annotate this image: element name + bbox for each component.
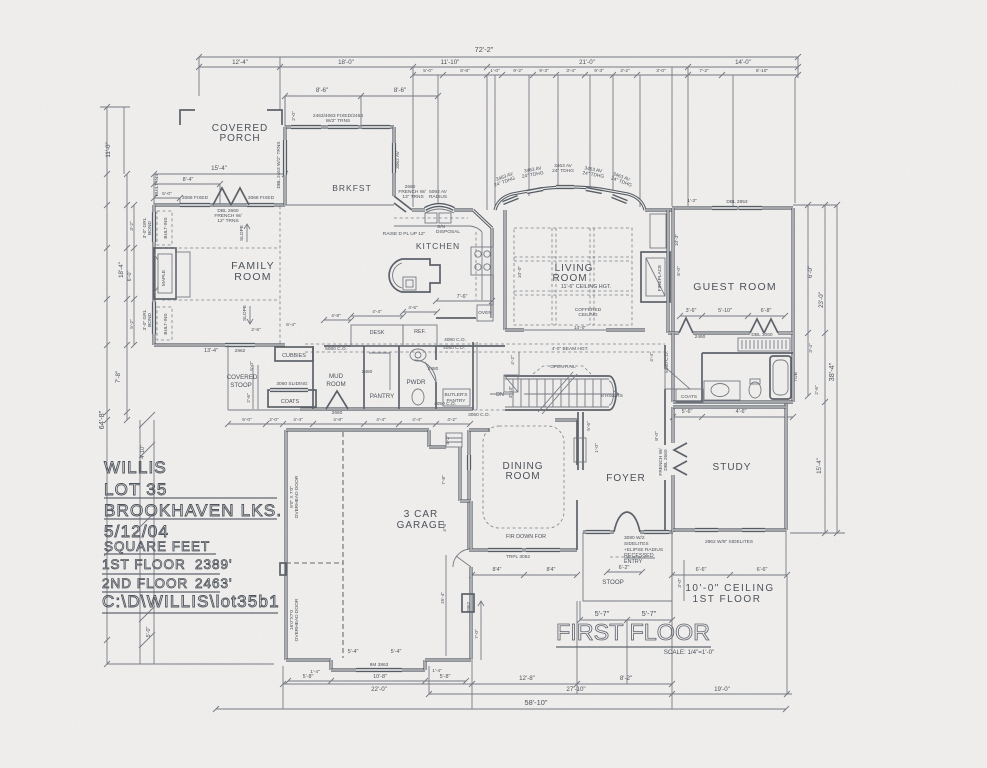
brkfst east wall [392, 127, 395, 196]
left lower dimension lines [107, 412, 274, 664]
left dimension line 3rd column windows [127, 202, 137, 348]
dimension 7'-6 kitchen [436, 300, 492, 302]
built-in dashed box lower [157, 307, 172, 340]
underline 2ND FLOOR [102, 591, 220, 593]
garage storage bump [462, 594, 474, 612]
stair arrow [490, 391, 619, 397]
powder toilet [410, 349, 426, 361]
dimension line bottom 58'-10 [213, 698, 789, 712]
garage south wall with door [286, 660, 471, 670]
living south wall [505, 328, 645, 331]
covered porch corner marks [180, 110, 282, 125]
kitchen island [389, 259, 440, 292]
garage bay divider dashed [342, 432, 344, 658]
coats closet guest hall [676, 389, 703, 402]
dining north wall [469, 420, 577, 430]
kitchen cooktop [471, 247, 493, 275]
bath partition [701, 353, 703, 402]
mud strip south wall [300, 407, 473, 410]
underline file path [102, 612, 278, 614]
buffet north of fireplace [650, 214, 666, 248]
brkfst corner french door [394, 196, 412, 212]
guest room west wall [671, 208, 674, 333]
extension lines from top dims down to walls [199, 57, 798, 210]
guest closet dim line [677, 308, 788, 319]
dimension lines porch 15'-4 [151, 96, 288, 205]
powder sink [412, 389, 424, 405]
dining tray ceiling dashed [483, 426, 564, 528]
garage east wall [453, 447, 471, 659]
vanity sink [704, 381, 740, 400]
family ceiling dashed break lines [162, 247, 280, 249]
kitchen corner diagonal wall [473, 210, 492, 228]
dimension line coats 5'-6 4'-6 [670, 409, 796, 420]
dimension line study bottom 6'-6 6'-6 [627, 560, 790, 684]
slope arrow lower [247, 306, 253, 324]
garage west wall [284, 430, 287, 660]
garage entry steps [446, 433, 462, 447]
dim row mud strip bottom [225, 417, 473, 427]
study south wall windows [673, 528, 786, 531]
left outer dimension line 64'-8 [97, 104, 112, 667]
kitchen sink [425, 213, 451, 223]
entry door arc [614, 512, 640, 532]
scan noise overlay [0, 0, 1, 1]
coats closet stoop [268, 390, 316, 407]
left dimension line 2nd column [100, 107, 130, 423]
living room coffered ceiling dashed grid [514, 228, 632, 325]
underline LOT 35 [104, 497, 277, 499]
study east wall [784, 402, 787, 530]
brkfst top wall windows [285, 125, 394, 128]
living room bay window arc [495, 187, 645, 210]
wall living to guest top [645, 208, 672, 211]
corridor dashed cased opening lines [305, 344, 665, 362]
underline FIRST FLOOR [556, 646, 711, 648]
study west wall with french doors [673, 407, 687, 532]
right dimension line 38'-4 [790, 202, 845, 536]
kitchen counters [394, 218, 482, 300]
oven box [477, 305, 493, 321]
butlers pantry [443, 342, 477, 410]
dim 8'4 8'4 [469, 567, 580, 578]
fireplace cabinet [176, 252, 190, 297]
dimension line row3 top [410, 68, 801, 78]
built-in dashed box upper [157, 211, 172, 245]
cubbies [275, 347, 313, 361]
guest closet with rod [738, 338, 790, 351]
underline BROOKHAVEN [104, 518, 277, 520]
dimension line row2 top [196, 59, 801, 70]
slope arrow upper [244, 224, 250, 242]
dining east wall chase [576, 420, 578, 465]
wall kitchen south [436, 317, 476, 319]
mud room walls [313, 346, 364, 409]
dim 7'-0 arrow entry side [474, 601, 484, 660]
kitchen radius window wall [412, 205, 473, 213]
study north wall [673, 405, 786, 408]
underline SQUARE FEET [104, 553, 216, 555]
dining south wall windows TRPL 3062 [469, 548, 577, 551]
dining east wall lower [576, 500, 578, 550]
entry front wall sidelites [583, 530, 673, 533]
dimension line bottom row2 27'-10 19'-0 [426, 686, 792, 697]
family south wall [154, 343, 285, 346]
pantry walls [369, 346, 399, 409]
extension lines bottom [283, 530, 787, 709]
dimension line 72'-2" overall top [196, 45, 801, 60]
entry radius dashed [610, 556, 645, 558]
dimension line bottom row1 [280, 675, 675, 693]
stair closet [504, 375, 518, 392]
bath north wall [702, 352, 793, 354]
dimension line garage bottom 5'-8 10'-8 5'-8 [285, 649, 469, 684]
brkfst west wall [283, 127, 286, 205]
stoop outline [583, 532, 672, 601]
bath south wall [673, 400, 793, 403]
wall living east double [666, 210, 669, 333]
stoop door to mud room [326, 391, 348, 409]
guest room top wall windows DBL 2853 [672, 206, 793, 209]
powder room walls [414, 346, 436, 409]
brkfst interior dim marks [285, 204, 394, 206]
hall north wall desk row [324, 325, 505, 346]
guest south wall with doors [668, 318, 793, 333]
living room west wall [503, 210, 506, 330]
dimension line stoop 5'-7 5'-7 [577, 601, 675, 623]
toilet [749, 379, 761, 398]
stairs [505, 372, 616, 414]
garage north wall [286, 430, 446, 447]
underline 1ST FLOOR [102, 573, 220, 575]
dim row above desk [286, 305, 440, 328]
living media cabinet [641, 252, 670, 302]
foyer east wall [665, 345, 690, 532]
guest room east wall [791, 208, 794, 402]
dimension line brkfst 8'-6 8'-6 [282, 87, 441, 126]
tub [770, 356, 791, 399]
right dimension line 8'-0 [805, 202, 820, 399]
fireplace [154, 248, 176, 299]
garage door track dashed [286, 562, 343, 564]
hall bath west wall [671, 333, 674, 402]
dim 6'-2 stoop [607, 571, 642, 573]
family room top wall with windows and french door [154, 188, 285, 205]
family room west wall [152, 205, 155, 345]
chase below stairs [574, 412, 586, 470]
covered stoop [228, 345, 300, 410]
right dimension line 23'-0 [816, 202, 828, 536]
dining west wall [467, 430, 470, 550]
kitchen east wall [490, 228, 493, 318]
